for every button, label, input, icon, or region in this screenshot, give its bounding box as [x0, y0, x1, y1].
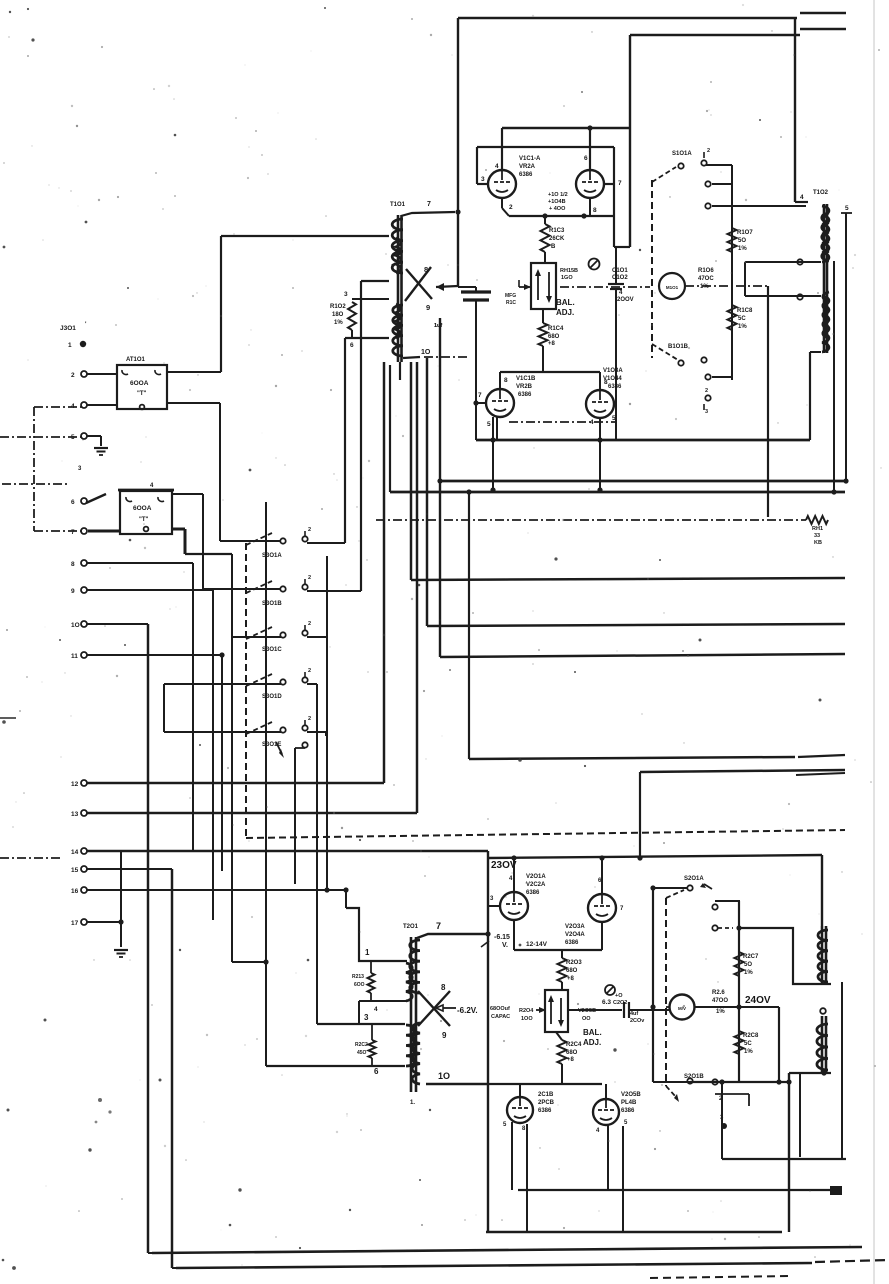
svg-text:2: 2 — [308, 527, 311, 533]
svg-text:6386: 6386 — [518, 392, 532, 398]
svg-text:6.3: 6.3 — [602, 999, 611, 1006]
svg-text:4: 4 — [495, 163, 499, 170]
svg-text:J3O1: J3O1 — [60, 325, 76, 332]
svg-text:R2.6: R2.6 — [712, 990, 725, 996]
svg-text:T2O1: T2O1 — [403, 924, 419, 930]
svg-text:12-14V: 12-14V — [526, 941, 548, 948]
svg-text:5O: 5O — [738, 238, 746, 244]
svg-text:R2C7: R2C7 — [743, 954, 759, 960]
svg-text:1%: 1% — [744, 1049, 753, 1055]
svg-text:26CK: 26CK — [549, 236, 565, 242]
svg-text:B: B — [551, 244, 556, 250]
svg-text:15: 15 — [71, 867, 79, 874]
svg-text:VR2B: VR2B — [516, 384, 533, 390]
svg-text:2C1B: 2C1B — [538, 1092, 554, 1098]
svg-text:R2O4: R2O4 — [519, 1008, 534, 1014]
svg-text:9: 9 — [442, 1031, 447, 1040]
svg-text:5C: 5C — [738, 316, 746, 322]
svg-text:V2O4A: V2O4A — [565, 932, 585, 938]
svg-text:V2O3A: V2O3A — [565, 924, 585, 930]
svg-text:24OV: 24OV — [745, 995, 771, 1006]
svg-text:4: 4 — [800, 194, 804, 201]
svg-text:"T": "T" — [139, 517, 149, 523]
svg-text:ADJ.: ADJ. — [583, 1038, 601, 1047]
svg-text:68O: 68O — [566, 1050, 578, 1056]
svg-text:1%: 1% — [738, 246, 747, 252]
svg-text:8: 8 — [424, 265, 428, 274]
svg-text:T1O1: T1O1 — [390, 202, 406, 208]
svg-text:PL4B: PL4B — [621, 1100, 637, 1106]
svg-text:7: 7 — [71, 529, 75, 536]
svg-text:OO: OO — [582, 1016, 591, 1022]
svg-text:33: 33 — [814, 533, 820, 539]
svg-text:6386: 6386 — [538, 1108, 552, 1114]
svg-text:+1O4B: +1O4B — [548, 199, 566, 205]
svg-text:7: 7 — [436, 921, 441, 931]
svg-text:14: 14 — [71, 849, 79, 856]
svg-text:6: 6 — [71, 499, 75, 506]
svg-text:13: 13 — [71, 811, 79, 818]
svg-text:BAL.: BAL. — [556, 298, 575, 307]
svg-text:2: 2 — [707, 148, 710, 154]
svg-text:3: 3 — [481, 176, 485, 183]
svg-text:2: 2 — [308, 575, 311, 581]
svg-text:R1C: R1C — [506, 300, 516, 306]
svg-text:R213: R213 — [352, 974, 364, 980]
svg-text:1: 1 — [365, 948, 370, 957]
svg-text:T1O2: T1O2 — [813, 190, 829, 196]
svg-text:8: 8 — [71, 561, 75, 568]
svg-text:4uf: 4uf — [630, 1011, 638, 1017]
svg-text:45O: 45O — [357, 1050, 367, 1056]
svg-text:1%: 1% — [738, 324, 747, 330]
svg-text:+8: +8 — [548, 341, 556, 347]
svg-text:V1C1B: V1C1B — [516, 376, 536, 382]
svg-text:+8: +8 — [567, 976, 575, 982]
svg-text:6: 6 — [350, 342, 354, 349]
svg-text:6386: 6386 — [519, 172, 533, 178]
svg-text:11: 11 — [71, 653, 78, 660]
svg-text:S2O1A: S2O1A — [684, 876, 704, 882]
svg-text:1OO: 1OO — [521, 1016, 533, 1022]
svg-text:C1O2: C1O2 — [612, 275, 628, 281]
svg-text:2: 2 — [71, 372, 75, 379]
svg-text:MFG: MFG — [505, 293, 516, 299]
svg-text:R2C4: R2C4 — [566, 1042, 582, 1048]
svg-text:6: 6 — [584, 155, 588, 162]
svg-text:M/V: M/V — [678, 1006, 686, 1011]
svg-text:6OOA: 6OOA — [133, 505, 152, 512]
svg-text:5O: 5O — [744, 962, 752, 968]
svg-text:R2O3: R2O3 — [566, 960, 582, 966]
svg-text:1O: 1O — [438, 1071, 450, 1081]
svg-text:5: 5 — [487, 421, 491, 428]
svg-text:V1C1-A: V1C1-A — [519, 156, 541, 162]
svg-text:1O: 1O — [421, 349, 431, 356]
svg-text:8: 8 — [593, 207, 597, 214]
svg-text:1%: 1% — [716, 1009, 725, 1015]
svg-text:4: 4 — [374, 1006, 378, 1013]
svg-text:2PCB: 2PCB — [538, 1100, 555, 1106]
svg-text:12: 12 — [71, 781, 79, 788]
svg-text:5: 5 — [845, 205, 849, 212]
svg-text:6OOA: 6OOA — [130, 380, 149, 387]
svg-text:2: 2 — [308, 668, 311, 674]
svg-text:RH15B: RH15B — [560, 268, 578, 274]
svg-text:6OO: 6OO — [354, 982, 365, 988]
svg-text:V1O3A: V1O3A — [603, 368, 623, 374]
svg-text:7: 7 — [478, 392, 482, 399]
svg-text:R1O6: R1O6 — [698, 268, 714, 274]
svg-text:2: 2 — [509, 204, 513, 211]
svg-text:BAL.: BAL. — [583, 1028, 602, 1037]
svg-text:R1C4: R1C4 — [548, 326, 564, 332]
svg-text:1GO: 1GO — [561, 275, 573, 281]
svg-text:1: 1 — [68, 342, 72, 349]
svg-text:1O: 1O — [71, 622, 80, 629]
svg-text:B1O1B: B1O1B — [668, 344, 689, 350]
svg-text:V1O44: V1O44 — [603, 376, 622, 382]
svg-text:1%: 1% — [744, 970, 753, 976]
svg-text:KB: KB — [814, 540, 822, 546]
svg-text:+8: +8 — [567, 1057, 575, 1063]
svg-text:68O: 68O — [566, 968, 578, 974]
svg-text:7: 7 — [618, 180, 622, 187]
svg-text:2: 2 — [308, 716, 311, 722]
svg-text:C1O1: C1O1 — [612, 268, 628, 274]
svg-text:47OC: 47OC — [698, 276, 714, 282]
svg-text:+1O 1/2: +1O 1/2 — [548, 192, 568, 198]
svg-text:3: 3 — [364, 1013, 369, 1022]
svg-text:R1O7: R1O7 — [737, 230, 753, 236]
svg-text:1%: 1% — [334, 320, 343, 326]
svg-text:6386: 6386 — [565, 940, 579, 946]
svg-text:2OOV: 2OOV — [617, 297, 634, 303]
svg-text:-6.2V.: -6.2V. — [457, 1006, 478, 1015]
svg-text:47OO: 47OO — [712, 998, 728, 1004]
svg-text:3: 3 — [705, 409, 708, 415]
svg-text:V2O5B: V2O5B — [578, 1008, 596, 1014]
svg-text:6386: 6386 — [608, 384, 622, 390]
svg-text:ADJ.: ADJ. — [556, 308, 574, 317]
svg-text:8: 8 — [504, 377, 508, 384]
svg-text:7: 7 — [427, 201, 431, 208]
svg-text:R1O2: R1O2 — [330, 304, 346, 310]
svg-text:68OOuf: 68OOuf — [490, 1006, 510, 1012]
svg-text:2: 2 — [705, 388, 708, 394]
svg-text:"T": "T" — [137, 391, 147, 397]
svg-text:1.: 1. — [410, 1100, 415, 1106]
svg-text:16: 16 — [71, 888, 79, 895]
svg-text:R1C8: R1C8 — [737, 308, 753, 314]
svg-text:-6.15: -6.15 — [494, 934, 510, 941]
svg-text:6: 6 — [374, 1067, 379, 1076]
svg-text:18O: 18O — [332, 312, 344, 318]
svg-text:R2C2: R2C2 — [355, 1042, 368, 1048]
svg-text:V2O5B: V2O5B — [621, 1092, 641, 1098]
svg-text:9: 9 — [426, 303, 430, 312]
svg-text:6386: 6386 — [621, 1108, 635, 1114]
svg-text:V.: V. — [502, 942, 508, 949]
svg-text:8: 8 — [441, 983, 446, 992]
svg-text:3: 3 — [344, 291, 348, 298]
svg-text:5C: 5C — [744, 1041, 752, 1047]
svg-text:+O: +O — [615, 993, 623, 999]
svg-text:CAPAC: CAPAC — [491, 1014, 510, 1020]
svg-text:2: 2 — [308, 621, 311, 627]
svg-text:5: 5 — [612, 415, 616, 422]
svg-text:1%: 1% — [700, 284, 709, 290]
svg-text:VR2A: VR2A — [519, 164, 536, 170]
svg-text:S1O1A: S1O1A — [672, 151, 692, 157]
svg-text:R1C3: R1C3 — [549, 228, 565, 234]
svg-text:R2C8: R2C8 — [743, 1033, 759, 1039]
svg-text:+ 4OO: + 4OO — [549, 206, 566, 212]
svg-text:C2O2: C2O2 — [613, 1000, 627, 1006]
svg-text:6386: 6386 — [526, 890, 540, 896]
svg-text:RH1: RH1 — [812, 526, 823, 532]
svg-text:AT1O1: AT1O1 — [126, 357, 146, 363]
svg-text:M1O1: M1O1 — [666, 285, 679, 290]
svg-text:V2O1A: V2O1A — [526, 874, 546, 880]
svg-text:2COv: 2COv — [630, 1018, 645, 1024]
svg-text:V2C2A: V2C2A — [526, 882, 546, 888]
svg-text:9: 9 — [71, 588, 75, 595]
svg-text:68O: 68O — [548, 334, 560, 340]
svg-text:17: 17 — [71, 920, 79, 927]
